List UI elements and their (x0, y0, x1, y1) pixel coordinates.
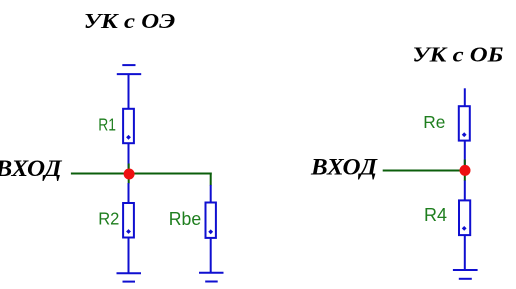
node: junction dot (right) (460, 165, 471, 176)
svg-text:УК с ОЭ: УК с ОЭ (84, 10, 175, 34)
wire: corner to Rbe (210, 185, 212, 203)
resistor R4 (459, 200, 470, 235)
ground (under Rbe) (199, 273, 224, 282)
svg-text:R2: R2 (98, 208, 119, 229)
resistor R1 (123, 109, 134, 143)
wire: Rbe to ground (210, 238, 212, 273)
wire: power to R1 (128, 74, 130, 109)
wire: node to R2 (128, 183, 130, 203)
wire: node to R4 (464, 181, 466, 201)
svg-text:ВХОД: ВХОД (310, 155, 379, 180)
ground (under R2) (117, 273, 142, 281)
ground (under R4) (453, 270, 478, 279)
wire: top lead (right circuit) (464, 88, 466, 106)
resistor R2 (123, 203, 134, 238)
wire: R1 to node (128, 143, 130, 169)
svg-text:УК с ОБ: УК с ОБ (412, 43, 503, 67)
wire: Re to node (464, 141, 466, 165)
power rail symbol (top of left circuit) (117, 65, 141, 74)
wire: junction green stubs (128, 164, 130, 184)
svg-text:Rbe: Rbe (169, 209, 201, 229)
wire: input horizontal (right circuit) (383, 170, 465, 172)
svg-text:R4: R4 (424, 205, 447, 225)
svg-text:R1: R1 (98, 115, 116, 135)
wire: R4 to ground (464, 235, 466, 270)
wire: green stub down at Rbe corner (210, 173, 212, 186)
wire: R2 to ground (128, 238, 130, 274)
resistor Rbe (206, 203, 216, 238)
node: junction dot (left) (124, 169, 135, 180)
wire: junction green stubs (right) (464, 160, 466, 182)
resistor Re (459, 106, 470, 140)
wire: input horizontal (left circuit) (71, 173, 212, 175)
svg-text:Re: Re (423, 112, 445, 132)
svg-text:ВХОД: ВХОД (0, 157, 63, 182)
